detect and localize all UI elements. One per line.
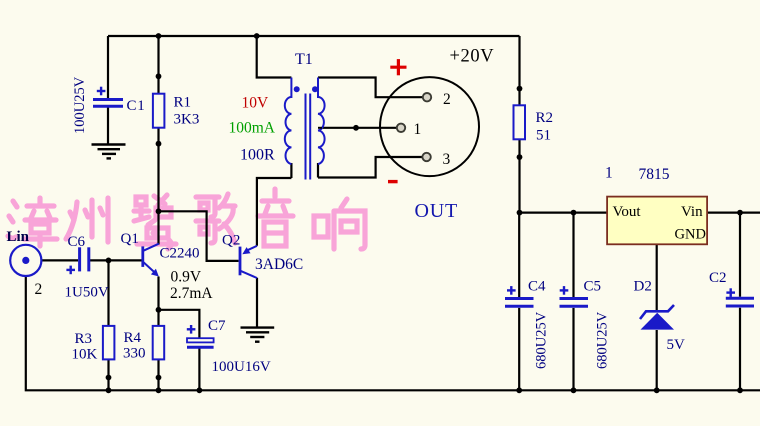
wire Q2 collector to ground [256,278,258,328]
capacitor C1 [93,100,123,107]
WATERMARK [8,189,365,249]
svg-text:+20V: +20V [450,47,495,67]
svg-text:3AD6C: 3AD6C [255,256,303,273]
svg-text:680U25V: 680U25V [595,311,611,369]
svg-text:R4: R4 [124,330,142,346]
wire secondary top to pin 2 [318,78,423,98]
svg-text:1: 1 [414,121,422,138]
resistor R1 [153,94,165,128]
wire D2 anode to ground rail [656,330,658,390]
svg-text:100U16V: 100U16V [212,359,271,375]
svg-text:5V: 5V [667,337,686,353]
wire C4 column [518,213,520,297]
wire rail to transformer primary top [257,36,292,78]
connector pin 1 [397,124,405,132]
node Q1 emitter junction [156,307,162,313]
node secondary tap joint [353,125,359,131]
Q1 emitter arrow [151,269,159,277]
wire C5 column [572,213,574,297]
svg-text:10K: 10K [72,347,98,363]
wire +15V rail left of 7815 [520,212,608,214]
wire node to Q1 base [109,259,142,261]
node ground rail / C5 [571,387,577,393]
transformer T1 secondary winding [318,78,325,165]
watermark char 4 [196,194,235,243]
ground (C1) [92,145,126,159]
capacitor C5 [560,299,589,307]
wire C1 bottom to ground [107,107,109,145]
watermark char 6 [314,199,365,249]
svg-text:C1: C1 [127,98,146,114]
capacitor C4 [505,299,534,307]
T1 polarity dot secondary [312,86,318,92]
wire rail corner down to R2 [518,36,520,105]
svg-text:Q1: Q1 [121,231,139,247]
red minus mark [388,180,398,183]
wire +15V rail right of 7815 [707,212,760,214]
wire secondary bottom stub [317,163,319,178]
watermark char 2 [66,198,108,242]
node R1 upper joint [156,73,162,79]
node Q1 collector junction [156,208,162,214]
svg-text:1: 1 [605,165,613,182]
C1 plus sign [97,87,106,96]
node ground rail / D2 [654,387,660,393]
svg-text:C2: C2 [709,270,727,286]
node ground rail / R4 [156,387,162,393]
node ground rail / R3 [106,387,112,393]
connector pin 2 [423,93,431,101]
svg-text:C6: C6 [68,234,86,250]
connector OUT circle [380,77,479,176]
C4 plus sign [507,286,516,295]
node ground rail / C7 [197,387,203,393]
node +15 rail / C4 [517,210,523,216]
svg-text:100mA: 100mA [229,120,276,137]
C7 plus sign [187,325,196,334]
svg-text:OUT: OUT [415,200,459,222]
resistor R2 [514,105,526,139]
wire R4 bottom to ground rail [157,359,159,390]
wire R3 bottom to ground rail [107,359,109,390]
capacitor C2 [726,298,754,306]
svg-text:10V: 10V [242,95,270,112]
svg-text:100R: 100R [240,147,275,164]
wire Lin down and bottom ground rail [26,276,760,390]
regulator U1 7815 body [607,197,707,245]
svg-text:R2: R2 [536,110,554,126]
wire top +20V rail [108,35,520,37]
watermark char 5 [258,189,293,246]
wire primary bottom stub [290,163,292,178]
wire secondary bottom to pin 3 [318,157,423,178]
transformer T1 core [306,94,311,180]
node rail/T1 junction [254,33,260,39]
wire R2 bottom to +15 rail [518,139,520,212]
svg-text:330: 330 [123,346,146,362]
wire secondary tap to pin 1 [322,127,397,129]
connector Lin [10,245,41,276]
capacitor C6 [80,247,89,271]
svg-text:0.9V: 0.9V [171,269,202,286]
node R3 lower joint [106,375,112,381]
svg-text:100U25V: 100U25V [72,76,88,134]
node +15 rail / C2 [737,210,743,216]
node C6 / Q1 base [106,258,112,264]
node rail/R1 junction [156,33,162,39]
wire Q1 emitter down to R4 [157,277,159,326]
wire R1 bottom to Q1 collector node [157,128,159,212]
svg-text:680U25V: 680U25V [534,311,550,369]
svg-text:2.7mA: 2.7mA [170,285,213,302]
capacitor C7 [187,338,214,347]
wire C7 bottom to ground rail [198,348,200,390]
C2 plus sign [726,288,735,297]
zener diode D2 [640,305,674,330]
C5 plus sign [560,286,569,295]
node +15 rail / C5 [571,210,577,216]
node R2 upper joint [517,86,523,92]
red plus mark [390,59,406,75]
watermark char 3 [134,195,176,249]
ground (Q2 collector) [241,328,275,342]
C6 plus sign [66,266,75,275]
svg-text:51: 51 [536,128,551,144]
watermark char 1 [8,198,57,246]
resistor R4 [153,326,165,360]
wire Q1 collector node to Q2 base [159,211,239,261]
wire node down to R3 [107,260,109,326]
wire R1 top [157,36,159,94]
transistor Q2 [240,246,257,278]
wire C6 to node [90,259,109,261]
transformer T1 primary winding [285,78,292,165]
wire emitter node to C7 [159,310,200,338]
connector pin 3 [422,153,430,161]
T1 polarity dot primary [294,86,300,92]
svg-text:C2240: C2240 [160,246,200,262]
svg-text:2: 2 [443,91,451,108]
node R2 lower joint [517,154,523,160]
transistor Q1 [143,244,159,273]
wire C1 top [107,36,109,99]
svg-text:Vout: Vout [613,204,642,220]
transformer tap stub [318,127,322,129]
svg-text:C7: C7 [208,318,226,334]
svg-text:1U50V: 1U50V [65,285,109,301]
svg-text:C4: C4 [528,279,546,295]
svg-text:T1: T1 [295,51,313,68]
Q2 emitter arrow (PNP, pointing into base) [242,247,250,254]
svg-text:Lin: Lin [7,229,30,245]
wire Lin connector to C6 [41,259,78,261]
svg-text:C5: C5 [584,279,602,295]
svg-text:R1: R1 [174,95,192,111]
wire 7815 GND pin to D2 [656,244,658,311]
svg-text:2: 2 [35,281,43,298]
node ground rail / C4 [516,387,522,393]
svg-text:Q2: Q2 [222,233,240,249]
svg-text:3K3: 3K3 [174,112,200,128]
svg-text:3: 3 [443,151,451,168]
wire transformer primary bottom to Q2 emitter [257,178,292,246]
wire Q1 collector vertical [157,211,159,244]
node R4 lower joint [156,375,162,381]
svg-text:D2: D2 [634,279,652,295]
svg-text:R3: R3 [75,331,93,347]
svg-text:GND: GND [675,227,706,243]
svg-text:Vin: Vin [681,204,703,220]
wire C2 column [739,213,741,297]
node R1 lower joint [156,141,162,147]
node ground rail / C2 [737,387,743,393]
svg-text:7815: 7815 [639,166,670,183]
resistor R3 [103,326,115,360]
